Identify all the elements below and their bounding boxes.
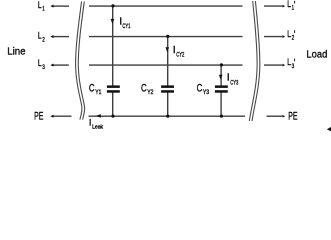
label L3 left [38, 58, 45, 71]
svg-text:Line: Line [7, 46, 25, 58]
svg-text:Y2: Y2 [147, 89, 154, 96]
wire L3 left segment [53, 64, 69, 66]
wire drop 3 upper (L3 to capacitor CY3) [220, 65, 222, 86]
svg-text:I: I [173, 44, 176, 56]
svg-text:C: C [141, 83, 147, 95]
svg-text:PE: PE [34, 111, 43, 123]
svg-text:Y3: Y3 [203, 89, 210, 96]
svg-text:Y1: Y1 [95, 89, 102, 96]
label CY1 [89, 83, 102, 97]
terminal arrow PE right [283, 115, 286, 118]
current arrow ICY2 [166, 47, 170, 52]
node junction L1/drop1 [111, 4, 114, 7]
label CY2 [141, 83, 154, 97]
current arrow Ileak on PE [96, 114, 101, 118]
svg-text:C: C [197, 83, 203, 95]
svg-text:L: L [287, 29, 291, 39]
wire drop 2 upper (L2 to capacitor CY2) [167, 37, 169, 86]
terminal arrow PE left [50, 115, 53, 118]
capacitor CY2 [161, 85, 174, 92]
svg-text:CY1: CY1 [122, 23, 130, 30]
terminal arrow L3 left [50, 64, 53, 67]
label L1 left [38, 0, 45, 12]
wire L2 right segment [264, 36, 282, 38]
svg-text:L: L [287, 0, 291, 9]
wire L1 middle segment [89, 5, 243, 7]
svg-text:Leak: Leak [92, 125, 103, 131]
wire L1 left segment [53, 5, 69, 7]
wire drop 1 upper (L1 to capacitor CY1) [112, 6, 114, 86]
node junction L3/drop3 [220, 63, 223, 66]
wire PE middle segment [89, 115, 246, 117]
svg-text:CY3: CY3 [230, 80, 238, 87]
terminal arrow L2 right [283, 35, 286, 38]
current arrow ICY3 [219, 75, 223, 80]
svg-text:CY2: CY2 [176, 52, 184, 59]
label ICY3 [227, 72, 239, 87]
node junction PE/drop3 [220, 115, 223, 118]
wire L2 middle segment [89, 36, 243, 38]
capacitor CY1 [107, 85, 120, 92]
node junction PE/drop2 [166, 115, 169, 118]
break symbol right [249, 1, 260, 121]
break symbol left [76, 2, 85, 120]
label L2' right [287, 29, 295, 42]
wire L3 middle segment [89, 64, 243, 66]
wire L3 right segment [264, 64, 282, 66]
label CY3 [197, 83, 210, 97]
wire drop 1 lower (capacitor CY1 to PE) [112, 93, 114, 117]
current arrow ICY1 [111, 19, 115, 24]
wire drop 2 lower (capacitor CY2 to PE) [167, 93, 169, 117]
svg-text:L: L [38, 58, 42, 68]
wire PE left segment [53, 115, 71, 117]
svg-text:C: C [89, 83, 95, 95]
label L1' right [287, 0, 295, 11]
terminal arrow L2 left [50, 35, 53, 38]
svg-text:L: L [287, 57, 291, 67]
decorative cut-off arrow bottom right [327, 127, 331, 131]
label L3' right [287, 57, 295, 70]
wire PE right segment [267, 115, 283, 117]
terminal arrow L1 right [283, 5, 286, 8]
terminal arrow L3 right [283, 64, 286, 67]
svg-text:L: L [38, 0, 42, 10]
capacitor CY3 [215, 85, 228, 92]
wire drop 3 lower (capacitor CY3 to PE) [220, 93, 222, 117]
node junction L2/drop2 [166, 35, 169, 38]
svg-text:I: I [89, 118, 92, 128]
label ICY2 [173, 44, 185, 59]
wire L1 right segment [264, 5, 282, 7]
label Ileak [89, 118, 104, 131]
label ICY1 [119, 16, 131, 30]
node junction PE/drop1 [111, 115, 114, 118]
svg-text:PE: PE [288, 111, 297, 123]
svg-text:Load: Load [306, 49, 327, 61]
terminal arrow L1 left [50, 5, 53, 8]
svg-text:L: L [38, 31, 42, 41]
label L2 left [38, 31, 45, 44]
wire L2 left segment [53, 36, 69, 38]
